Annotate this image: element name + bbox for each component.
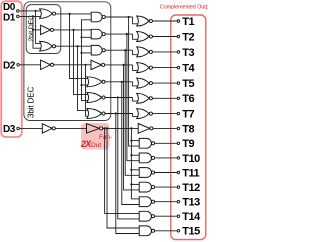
NAND gate U3 — [91, 45, 105, 55]
terminal D0 — [17, 10, 20, 13]
wire output T2 — [152, 36, 177, 38]
NAND gate output T15 — [139, 226, 154, 236]
svg-text:T14: T14 — [182, 211, 201, 223]
svg-text:2bit DEC: 2bit DEC — [28, 15, 35, 42]
wire output T9 — [155, 142, 178, 144]
svg-text:T1: T1 — [182, 16, 194, 28]
svg-text:Fan-: Fan- — [99, 134, 112, 141]
NOR gate output T2 — [137, 32, 153, 42]
wire U2 out to output gate — [105, 33, 133, 35]
svg-text:T13: T13 — [182, 197, 200, 209]
terminal D1 — [17, 15, 20, 18]
junction U5 branch — [121, 81, 123, 83]
wire U4 out to output gate — [105, 64, 133, 66]
wire v107 to T15 upper input — [107, 128, 139, 228]
svg-text:T11: T11 — [182, 167, 199, 179]
NOR gate G3 (2bit DEC) — [40, 41, 56, 51]
wire G3 out to U3 — [56, 45, 92, 47]
wire stub T9 upper input — [131, 140, 139, 142]
wire output T13 — [155, 201, 178, 203]
wire stub T11 upper input — [131, 169, 139, 171]
terminal T2 — [177, 35, 180, 38]
NOR gate output T3 — [137, 47, 153, 57]
wire bus v81.5 — [82, 20, 92, 101]
NOR gate output T5 — [137, 78, 153, 88]
junction D2 buffered branch — [84, 64, 86, 66]
wire elbow T3 lower input — [133, 50, 138, 55]
svg-text:T7: T7 — [182, 109, 194, 121]
svg-text:T15: T15 — [182, 226, 200, 238]
svg-text:T2: T2 — [182, 31, 194, 43]
wire D0 branch down to G3 — [36, 11, 41, 44]
junction U4 branch — [122, 64, 124, 66]
terminal D3 — [17, 127, 20, 130]
NOR gate U6 — [87, 93, 105, 103]
terminal T8 — [177, 127, 180, 130]
wire output T7 — [152, 113, 177, 115]
terminal T7 — [177, 112, 180, 115]
wire elbow T6 lower input — [133, 98, 138, 102]
wire stub U5 lower input — [82, 84, 89, 86]
wire branch down to T12 lower input — [124, 65, 140, 190]
terminal T12 — [177, 186, 180, 189]
wire output T5 — [152, 82, 177, 84]
NAND gate U2 — [91, 29, 105, 39]
wire branch down to T9 lower input — [129, 17, 140, 146]
wire output T14 — [155, 215, 178, 217]
Complemented Output box (red) — [171, 15, 206, 240]
wire v131.4 bus — [130, 128, 132, 199]
terminal T3 — [177, 51, 180, 54]
NAND gate U1 — [91, 12, 105, 22]
junction v81.5 at U3 — [80, 52, 82, 54]
wire elbow T2 lower input — [133, 34, 138, 39]
junction G2 out — [72, 29, 74, 31]
wire I1 out to I2 — [54, 64, 91, 66]
junction D1 branch at G2 — [32, 29, 34, 31]
junction v131.4 at T9 — [130, 140, 132, 142]
wire output T15 — [155, 230, 178, 232]
wire U3 out to output gate — [105, 49, 133, 51]
wire D1 to gate G1 — [20, 15, 41, 17]
3bit DEC block box — [24, 2, 111, 121]
2bit DEC block box — [26, 5, 61, 54]
svg-text:D3: D3 — [3, 124, 16, 135]
terminal T5 — [177, 82, 180, 85]
junction v131.4 at T12 — [130, 183, 132, 185]
wire U5 out to output gate — [105, 81, 133, 83]
svg-text:3bit DEC: 3bit DEC — [26, 86, 35, 118]
wire bus v85.5 to U7 input — [86, 65, 89, 116]
terminal T13 — [177, 200, 180, 203]
terminal T14 — [177, 215, 180, 218]
wire output T11 — [155, 172, 178, 174]
NOR gate output T1 — [137, 16, 153, 26]
junction U1 branch — [128, 16, 130, 18]
wire v104.6 to T14 upper input — [105, 128, 140, 213]
inverter I4 (D3 buffer) — [42, 124, 55, 133]
wire G1 out to U1 — [56, 13, 92, 15]
wire bus v77.5 to U7 input — [78, 46, 89, 110]
wire elbow T1 lower input — [133, 17, 138, 24]
wire D2 to inverter I1 — [19, 64, 40, 66]
wire branch down to T14 lower input — [118, 98, 140, 219]
junction v81.5 at U5 — [80, 84, 82, 86]
wire D1 branch down to G2/G3 — [33, 16, 41, 48]
wire branch down to T13 lower input — [122, 82, 140, 205]
junction U2 branch — [126, 33, 128, 35]
wire I4 out to I5 — [55, 127, 86, 129]
NOR gate G1 (2bit DEC) — [40, 9, 56, 19]
junction U7 branch — [115, 112, 117, 114]
svg-text:T6: T6 — [182, 93, 194, 105]
junction G3 out — [76, 45, 78, 47]
junction v131.4 at T11 — [130, 169, 132, 171]
inverter I5 (Fan-2X Out) — [87, 124, 103, 133]
wire D1 branch to inverter G2 — [33, 29, 41, 31]
svg-text:T8: T8 — [182, 123, 194, 135]
svg-text:T5: T5 — [182, 78, 194, 90]
wire elbow T4 lower input — [133, 65, 138, 71]
wire output T3 — [152, 51, 177, 53]
svg-text:T10: T10 — [182, 153, 200, 165]
wire D0 to gate G1 — [20, 10, 41, 12]
NAND gate output T11 — [139, 168, 154, 178]
wire U6 out to output gate — [105, 97, 133, 99]
svg-text:T3: T3 — [182, 47, 194, 59]
inverter I6 (T8 driver) — [138, 124, 153, 134]
inverter U4 (D2 2nd buffer) — [91, 60, 105, 69]
junction D3 chain c — [130, 127, 132, 129]
svg-text:T4: T4 — [182, 63, 195, 75]
inverter G2 (2bit DEC) — [41, 25, 54, 34]
terminal T11 — [177, 171, 180, 174]
wire D3 to inverter I4 — [19, 127, 42, 129]
wire output T12 — [155, 186, 178, 188]
wire elbow T7 lower input — [133, 114, 138, 117]
wire output T8 — [153, 127, 177, 129]
wire G2 out to U2 — [54, 29, 92, 31]
wire stub T10 upper input — [131, 154, 139, 156]
inverter I1 (D2 buffer) — [41, 60, 54, 69]
terminal T1 — [177, 20, 180, 23]
NOR gate U5 — [87, 77, 105, 87]
svg-text:T9: T9 — [182, 138, 194, 150]
wire I5 out to I6 — [103, 127, 139, 129]
junction G1 out — [68, 13, 70, 15]
wire stub U3 lower input — [82, 52, 92, 54]
terminal T9 — [177, 142, 180, 145]
junction U3 branch — [124, 49, 126, 51]
terminal T10 — [177, 157, 180, 160]
junction v81.5 at U2 — [80, 36, 82, 38]
svg-text:D1: D1 — [3, 12, 16, 23]
wire U7 out to output gate — [105, 113, 133, 115]
wire elbow T13 upper input — [131, 198, 139, 200]
terminal T6 — [177, 97, 180, 100]
junction v131.4 at T10 — [130, 154, 132, 156]
NOR gate output T4 — [137, 63, 153, 73]
NOR gate output T6 — [137, 93, 153, 103]
svg-text:D2: D2 — [3, 60, 16, 71]
NOR gate output T7 — [137, 109, 153, 119]
terminal T15 — [177, 230, 180, 233]
Fan-2X Out highlight (pink) — [81, 123, 110, 150]
wire stub T12 upper input — [131, 183, 139, 185]
NAND gate output T13 — [139, 197, 154, 207]
junction U6 branch — [117, 96, 119, 98]
3bit DEC highlight box (red) — [1, 1, 22, 137]
NAND gate output T12 — [139, 182, 154, 192]
wire branch down to T10 lower input — [127, 34, 139, 161]
wire output T1 — [152, 20, 177, 22]
wire U1 out to output gate — [105, 16, 133, 18]
svg-text:Complemented Output: Complemented Output — [160, 5, 208, 11]
terminal T4 — [177, 66, 180, 69]
NAND gate output T9 — [139, 138, 154, 148]
junction D1 branch — [32, 15, 34, 17]
wire bus v69.5 to U5 input — [70, 14, 89, 79]
wire output T4 — [152, 67, 177, 69]
junction D3 chain b — [106, 127, 108, 129]
junction D0 branch — [35, 10, 37, 12]
wire output T6 — [152, 97, 177, 99]
junction D3 chain a — [104, 127, 106, 129]
NAND gate output T10 — [139, 153, 154, 163]
NOR gate U7 — [87, 109, 105, 119]
wire elbow T5 lower input — [133, 82, 138, 86]
wire branch down to T15 lower input — [116, 114, 140, 234]
wire output T10 — [155, 157, 178, 159]
svg-text:Out: Out — [91, 142, 102, 149]
terminal D2 — [17, 64, 20, 67]
wire bus v73.5 to U6 input — [74, 30, 89, 95]
NAND gate output T14 — [139, 211, 154, 221]
svg-text:T12: T12 — [182, 182, 200, 194]
wire branch down to T11 lower input — [125, 50, 139, 175]
wire stub U2 lower input — [82, 36, 92, 38]
